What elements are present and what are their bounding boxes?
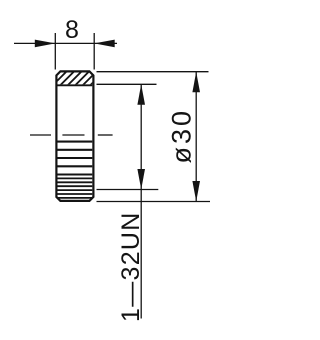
thread lines coarse [58,142,93,175]
thread dimension line [140,84,142,318]
dimension d30 extension lines [97,72,211,202]
centerline [30,134,113,136]
dimension 8 arrows [35,40,115,48]
part outline [56,71,93,201]
dimension d30 arrows [192,72,200,202]
thread lines fine [58,178,93,198]
svg-text:8: 8 [65,16,79,44]
svg-text:1—32UN: 1—32UN [117,211,145,322]
dimension 8 extension lines [55,33,94,70]
svg-text:ø30: ø30 [166,108,196,164]
thread dimension arrows [137,84,145,189]
thread dimension extension lines [97,84,159,189]
dimension 8 line [14,42,117,44]
hatched section band [52,70,106,86]
dimension d30 line [195,72,197,202]
